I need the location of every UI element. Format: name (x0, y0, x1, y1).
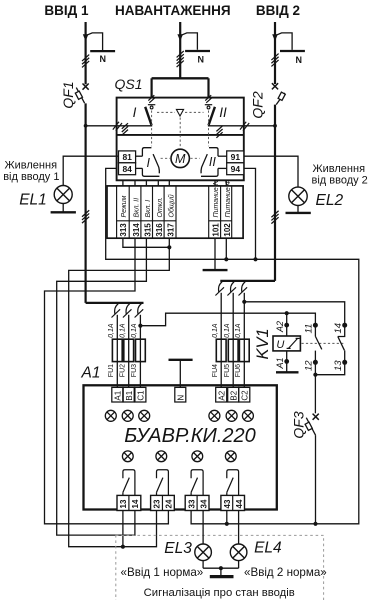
svg-text:FU5: FU5 (224, 364, 231, 377)
wire input-2 feeder (274, 22, 276, 84)
indicator crosses row 2 (122, 451, 133, 462)
lamp EL3 (195, 544, 212, 561)
motor link dashes (161, 157, 170, 159)
aux contact II of QS1 (218, 155, 227, 157)
input terminal A2 of A1 (216, 387, 227, 402)
wire terminal 317 common loop to terminals 13 and 23 (69, 238, 170, 547)
wire phase C2 to relay KV1 contact 14 (244, 302, 344, 325)
svg-text:KV1: KV1 (254, 328, 272, 359)
indicator crosses row 1 right (209, 410, 220, 421)
svg-text:N: N (176, 395, 185, 401)
svg-text:317: 317 (167, 223, 176, 237)
node coil tap on C1 line (285, 311, 289, 315)
output contact 43-44 (226, 492, 228, 495)
svg-text:0,1A: 0,1A (235, 323, 242, 338)
svg-text:ВВІД 1: ВВІД 1 (44, 3, 89, 18)
wire aux 81 to lamp EL1 (63, 156, 118, 185)
svg-text:A1: A1 (113, 390, 122, 400)
svg-text:EL2: EL2 (316, 192, 344, 209)
svg-text:44: 44 (235, 499, 244, 508)
wire terminal 13 stub (122, 511, 124, 547)
breaker QF3 (313, 414, 319, 420)
wire coil A2 (286, 313, 288, 336)
lamp EL4 (230, 544, 247, 561)
svg-text:11: 11 (304, 324, 315, 334)
svg-text:A2: A2 (217, 390, 226, 400)
wire coil A1 to ground bar (286, 351, 288, 372)
wire input-1 feeder (84, 22, 86, 84)
svg-text:C1: C1 (137, 390, 146, 401)
svg-text:EL4: EL4 (254, 540, 282, 557)
relay contact 13-14 (342, 323, 347, 328)
wire marks internal left (122, 123, 128, 129)
node input-2 tap arrow (272, 34, 278, 41)
mechanical link dashes KV1 (302, 342, 344, 344)
output terminals 13 14 (117, 495, 141, 510)
svg-text:C2: C2 (240, 390, 249, 401)
svg-text:0,1A: 0,1A (224, 323, 231, 338)
wire QS1 to QF2 (244, 125, 275, 127)
svg-text:«Ввід 2 норма»: «Ввід 2 норма» (244, 566, 327, 579)
load collector bar (152, 77, 209, 79)
svg-text:EL1: EL1 (19, 192, 47, 209)
wire aux 94 to phase rail (244, 168, 256, 259)
wire fuse FU6 column (243, 293, 245, 388)
wire marks internal right (216, 126, 222, 132)
connector pole FU3 (138, 304, 142, 314)
aux contact I of QS1 (136, 155, 143, 157)
wire fuse FU4 column (220, 293, 222, 388)
wire terminal 44 to lamp EL4 (238, 511, 240, 544)
neutral bar at terminal 101 (214, 238, 216, 270)
svg-text:94: 94 (231, 164, 241, 174)
svg-text:13: 13 (119, 499, 128, 508)
wire terminal 315 to terminal 14 (57, 238, 147, 535)
wire N tap input 2 (276, 33, 292, 50)
breaker QF2 (272, 83, 278, 89)
svg-text:I: I (133, 105, 137, 120)
knife blade II of QS1 (209, 107, 215, 126)
fixed contact II of QS1 (205, 104, 212, 106)
fuse FU4 0,1A (216, 339, 226, 361)
switch QS1 outline box (117, 98, 244, 181)
input terminal B2 of A1 (228, 387, 239, 402)
svg-text:QF2: QF2 (250, 91, 266, 118)
svg-text:EL3: EL3 (164, 540, 192, 557)
input terminal B1 of A1 (123, 387, 134, 402)
connector pole FU2 (126, 304, 130, 314)
fuse FU3 0,1A (136, 339, 146, 361)
wire phase rail: aux 84 - terminal 102 - aux 94 - QF3 - terminal 33 (106, 168, 359, 523)
ground bar EL2 (297, 206, 299, 213)
mechanical link triangle (176, 109, 183, 116)
terminal strip stubs to switch body (122, 180, 124, 186)
svg-text:14: 14 (131, 499, 140, 508)
svg-text:Вкл. I: Вкл. I (145, 200, 152, 218)
breaker QF1 (83, 84, 89, 90)
terminal strip of QS1 (107, 186, 243, 238)
wire QS1 internal right (208, 125, 244, 127)
wire input-2 run to fuses (220, 280, 275, 282)
wire fuse FU1 column (116, 315, 118, 388)
wire 12 to 13 series link (315, 362, 344, 374)
terminal 91 (227, 151, 244, 163)
svg-text:43: 43 (223, 499, 232, 508)
svg-text:«Ввід 1 норма»: «Ввід 1 норма» (121, 566, 204, 579)
wire phase C1 to relay KV1 contact 11 (140, 313, 315, 326)
wire input-2 main vertical (274, 105, 276, 281)
wire terminal 34 to lamp EL3 (202, 511, 204, 544)
wire load feeder (179, 22, 181, 78)
wire fuse FU5 column (232, 293, 234, 388)
svg-text:Общий: Общий (167, 194, 175, 217)
motor drive M of QS1 (171, 149, 189, 167)
knife blade I of QS1 (145, 107, 151, 126)
svg-text:84: 84 (122, 164, 132, 174)
relay KV1 coil (273, 336, 300, 351)
svg-text:34: 34 (199, 499, 208, 508)
svg-text:81: 81 (122, 152, 132, 162)
terminal 94 (227, 163, 244, 175)
svg-text:від вводу 2: від вводу 2 (312, 174, 368, 186)
output contact 13-14 (122, 492, 124, 495)
svg-text:FU1: FU1 (108, 364, 115, 377)
svg-text:316: 316 (155, 223, 164, 237)
wire fuse FU2 column (128, 315, 130, 388)
svg-text:БУАВР.КИ.220: БУАВР.КИ.220 (124, 425, 256, 447)
ground bar of signal lamps (220, 568, 222, 575)
connector marks QS1 right edge (240, 122, 246, 130)
neutral bar N input 2 (280, 50, 305, 52)
svg-text:A1: A1 (275, 357, 285, 369)
wire N tap input 1 (86, 33, 102, 50)
svg-text:13: 13 (333, 360, 344, 371)
wire QF3 down to lamp rail (315, 435, 317, 524)
node terminal 13 junction (121, 545, 125, 549)
relay contact 11-12 (313, 323, 318, 328)
ground bar EL1 (62, 204, 64, 213)
svg-text:A2: A2 (275, 321, 285, 333)
wire input-1 run to fuses (86, 302, 144, 304)
output contact 33-34 (190, 492, 192, 495)
svg-text:M: M (175, 152, 186, 166)
input terminal C2 of A1 (239, 387, 250, 402)
svg-text:14: 14 (333, 323, 344, 334)
svg-text:315: 315 (144, 223, 153, 237)
svg-text:B2: B2 (229, 390, 238, 400)
svg-text:FU3: FU3 (131, 364, 138, 377)
mechanical link dashes (157, 111, 175, 113)
connector marks QS1 top contact I (148, 95, 154, 100)
svg-text:313: 313 (119, 223, 128, 237)
wire marks input-1 lower (82, 210, 89, 216)
svg-text:33: 33 (187, 499, 196, 508)
signal box dashed outline (116, 535, 324, 600)
lamp EL1 (54, 186, 72, 204)
svg-text:N: N (198, 54, 205, 64)
indicator crosses row 1 left (105, 410, 116, 421)
svg-text:II: II (209, 155, 216, 169)
neutral bar N load (185, 50, 210, 52)
svg-text:0,1A: 0,1A (131, 323, 138, 338)
node input-1 tap arrow (83, 34, 89, 41)
output contact 23-24 (156, 492, 158, 495)
svg-text:QS1: QS1 (115, 76, 143, 92)
svg-text:Вкл. II: Вкл. II (134, 198, 141, 218)
wire fuse FU3 column (139, 315, 141, 388)
input terminal C1 of A1 (135, 387, 146, 402)
svg-text:ВВІД 2: ВВІД 2 (256, 3, 300, 18)
wire marks input 2 (3 conductors) (271, 54, 278, 60)
svg-text:91: 91 (231, 152, 241, 162)
svg-text:Режим: Режим (121, 195, 128, 217)
input terminal A1 of A1 (112, 387, 123, 402)
svg-text:Питание N: Питание N (213, 179, 220, 217)
svg-text:Живлення: Живлення (5, 160, 58, 172)
svg-text:Живлення: Живлення (313, 163, 366, 175)
svg-text:Откл.: Откл. (157, 197, 164, 218)
ground bar of coil A1 (276, 371, 299, 373)
neutral bar above A1 unit (169, 359, 193, 361)
wire terminal 102 stub (225, 238, 227, 259)
svg-text:A1: A1 (81, 364, 101, 381)
connector pole FU4 (219, 282, 223, 292)
connector pole FU1 (115, 304, 119, 314)
svg-text:N: N (296, 55, 303, 65)
wire QF1 to QS1 (86, 125, 117, 127)
node load tap arrow (177, 34, 183, 41)
svg-text:від вводу 1: від вводу 1 (3, 171, 59, 183)
svg-text:24: 24 (165, 499, 174, 508)
fuse FU5 0,1A (228, 339, 238, 361)
neutral bar N input 1 (90, 50, 115, 52)
svg-text:102: 102 (223, 223, 232, 237)
output terminals 23 24 (151, 495, 175, 510)
svg-text:B1: B1 (125, 390, 134, 400)
wire N tap load (181, 33, 197, 50)
svg-text:101: 101 (211, 223, 220, 237)
output terminals 43 44 (221, 495, 245, 510)
fuse FU2 0,1A (124, 339, 134, 361)
svg-text:I: I (146, 156, 150, 170)
svg-text:НАВАНТАЖЕННЯ: НАВАНТАЖЕННЯ (115, 3, 231, 18)
terminal 84 (119, 163, 136, 175)
svg-text:QF1: QF1 (60, 81, 76, 108)
lamp EL2 (289, 187, 307, 205)
wire to breaker QF3 (314, 375, 316, 414)
terminal 81 (119, 151, 136, 163)
svg-text:FU6: FU6 (235, 364, 242, 377)
connector marks QS1 top contact II (205, 95, 211, 100)
svg-text:Сигналізація про стан вводів: Сигналізація про стан вводів (144, 587, 295, 599)
connector pole FU6 (242, 282, 246, 292)
connector pole FU5 (231, 282, 235, 292)
svg-text:12: 12 (304, 360, 315, 371)
input terminal N of A1 (175, 387, 186, 402)
svg-text:FU4: FU4 (212, 364, 219, 377)
node 317 junction (167, 245, 171, 249)
wire QS1 internal left (117, 125, 153, 127)
wire terminal 43 stub to rail (226, 511, 228, 524)
wire marks load (4 conductors) (177, 51, 184, 57)
svg-text:FU2: FU2 (119, 364, 126, 377)
wire marks input-2 lower (271, 211, 278, 217)
fixed contact I of QS1 (148, 104, 155, 106)
svg-text:0,1A: 0,1A (212, 323, 219, 338)
wire terminal 313 to 317 (123, 238, 169, 247)
wire aux 91 to lamp EL2 (244, 156, 298, 187)
wire terminal 314 to terminal 24 (45, 238, 169, 524)
connector marks QS1 left edge (113, 122, 119, 130)
svg-text:N: N (100, 54, 107, 64)
svg-text:QF3: QF3 (291, 411, 307, 438)
svg-text:23: 23 (153, 499, 162, 508)
svg-text:II: II (219, 105, 227, 120)
svg-text:0,1A: 0,1A (108, 323, 115, 338)
wire input-1 main vertical (84, 103, 86, 303)
svg-text:0,1A: 0,1A (119, 323, 126, 338)
svg-text:U: U (276, 339, 284, 351)
fuse FU1 0,1A (112, 339, 122, 361)
wire lamp commons (202, 561, 204, 569)
output terminals 33 34 (185, 495, 209, 510)
fuse FU6 0,1A (239, 339, 249, 361)
control unit A1 box (84, 385, 277, 509)
wire marks input 1 (3 conductors) (82, 55, 89, 61)
svg-text:314: 314 (132, 223, 141, 237)
